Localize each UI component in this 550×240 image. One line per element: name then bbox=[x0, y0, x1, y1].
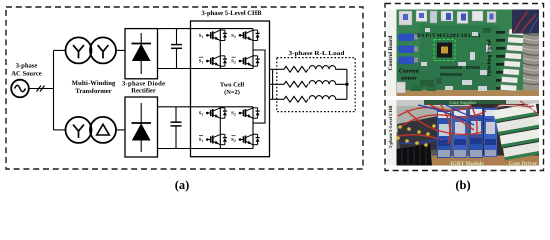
green pin rows mid board bbox=[440, 66, 480, 76]
phase wire stub A bbox=[270, 68, 285, 70]
svg-text:DSP(TMS320F28335): DSP(TMS320F28335) bbox=[417, 33, 480, 39]
capacitor C2 bbox=[171, 107, 182, 149]
wire bus to upper transformer bbox=[54, 49, 66, 51]
svg-text:S1: S1 bbox=[199, 33, 204, 39]
svg-text:Gate Supplier: Gate Supplier bbox=[449, 100, 476, 105]
svg-text:3-phase 5-Level CHB: 3-phase 5-Level CHB bbox=[388, 106, 394, 149]
CHB box bbox=[191, 21, 270, 157]
load branch A inductor bbox=[309, 66, 347, 70]
svg-text:S2: S2 bbox=[231, 33, 236, 39]
cell 2 left leg bbox=[219, 107, 221, 149]
transistor S2bar cell1 bbox=[239, 56, 260, 66]
connector pin rows dark stripes bbox=[496, 31, 505, 90]
svg-text:S2: S2 bbox=[231, 111, 236, 117]
cell 1 left leg bbox=[219, 29, 221, 69]
IGBT modules blue bbox=[437, 110, 451, 158]
svg-text:Current: Current bbox=[399, 69, 419, 75]
cascade wire cell1 to cell2 bbox=[253, 50, 265, 123]
cell 1 top rail bbox=[158, 28, 254, 30]
dark PCB slab with lugs bbox=[397, 116, 445, 156]
transistor S2 cell2 bbox=[239, 108, 260, 118]
photo background green PCB bbox=[387, 10, 539, 97]
svg-text:AC Source: AC Source bbox=[11, 71, 42, 78]
vertical bus bbox=[53, 50, 55, 129]
svg-text:S1: S1 bbox=[199, 137, 204, 143]
grey wire bundle right bbox=[523, 28, 539, 90]
light grey zone top left bbox=[397, 100, 452, 132]
svg-text:(a): (a) bbox=[175, 178, 190, 192]
AC source circle bbox=[11, 80, 29, 98]
3-phase slash marks bbox=[37, 86, 45, 92]
svg-text:Transformer: Transformer bbox=[75, 88, 111, 95]
wire source to bus bbox=[29, 88, 54, 90]
wire T2 to rectifier 2 bbox=[116, 129, 125, 131]
top photo: control board bbox=[387, 10, 539, 97]
svg-text:3-phase Diode: 3-phase Diode bbox=[122, 81, 165, 88]
transistor S2 cell1 bbox=[239, 30, 260, 40]
svg-text:3-phase 5-Level CHB: 3-phase 5-Level CHB bbox=[201, 10, 262, 17]
blue wires bbox=[400, 103, 493, 143]
svg-text:Multi-Winding: Multi-Winding bbox=[72, 80, 116, 87]
yellow lugs bbox=[396, 124, 436, 147]
overbars cell1 bbox=[199, 56, 236, 58]
capacitor C1 bbox=[171, 29, 182, 69]
transistor S1 cell1 bbox=[206, 30, 227, 40]
white relay components top row bbox=[399, 11, 412, 25]
svg-text:sensor: sensor bbox=[401, 76, 417, 82]
cell 2 right leg bbox=[252, 107, 254, 149]
tan table band bbox=[397, 156, 540, 166]
black heatsink bbox=[397, 144, 433, 166]
transformer T2 primary circle (Y) bbox=[66, 117, 92, 143]
wire T1 to rectifier 1 bbox=[116, 49, 125, 51]
red wires bbox=[398, 104, 486, 144]
dark zone behind drivers bbox=[470, 104, 539, 160]
cell 2 bottom rail bbox=[158, 148, 254, 150]
load branch C resistor bbox=[284, 96, 308, 102]
phase wire stub C bbox=[270, 98, 285, 100]
DSP dashed annotation bbox=[434, 40, 455, 61]
load branch A resistor bbox=[284, 66, 308, 72]
load branch C inductor bbox=[309, 96, 347, 100]
rectifier 1 box bbox=[125, 29, 158, 79]
svg-text:S1: S1 bbox=[199, 111, 204, 117]
small components bottom left bbox=[397, 82, 406, 93]
label strip 3-phase 5-Level CHB bbox=[387, 100, 397, 166]
gate driver stack bbox=[493, 103, 546, 161]
transistor S1bar cell1 bbox=[206, 56, 227, 66]
load branch B inductor bbox=[309, 81, 347, 85]
rectifier 2 box bbox=[125, 97, 158, 157]
blue capacitors bbox=[398, 34, 415, 42]
cell 1 bottom rail bbox=[158, 68, 254, 70]
scattered small components bbox=[421, 28, 491, 91]
svg-text:IGBT Module: IGBT Module bbox=[450, 161, 484, 167]
svg-text:Rectifier: Rectifier bbox=[131, 88, 156, 95]
transformer T1 primary circle (Y) bbox=[66, 37, 92, 63]
schematic text labels bbox=[11, 10, 470, 192]
transistor S2bar cell2 bbox=[239, 134, 260, 144]
svg-text:Control Board: Control Board bbox=[388, 35, 394, 71]
wires above gate drivers bbox=[495, 101, 539, 115]
load star wire bbox=[346, 69, 348, 99]
load dotted box bbox=[277, 58, 355, 112]
svg-text:Gate Driver: Gate Driver bbox=[509, 161, 538, 167]
svg-text:S2: S2 bbox=[231, 59, 236, 65]
rectifier 1 diode bbox=[132, 33, 152, 74]
transformer T1 secondary circle (Y) bbox=[90, 37, 116, 63]
svg-text:S2: S2 bbox=[231, 137, 236, 143]
phase wire stub B bbox=[270, 83, 285, 85]
svg-text:Two Cell: Two Cell bbox=[220, 81, 244, 88]
transistor S1 cell2 bbox=[206, 108, 227, 118]
svg-text:3-phase: 3-phase bbox=[16, 63, 38, 70]
dashed frame panel (b) bbox=[385, 4, 544, 171]
transformer T2 secondary circle (Delta) bbox=[90, 117, 116, 143]
svg-text:3-phase R-L Load: 3-phase R-L Load bbox=[289, 50, 346, 57]
DSP chip bbox=[437, 43, 452, 58]
transistor S1bar cell2 bbox=[206, 134, 227, 144]
bottom photo: CHB power stage bbox=[387, 100, 546, 168]
load branch B resistor bbox=[284, 81, 308, 87]
svg-text:(N=2): (N=2) bbox=[224, 89, 240, 96]
dark wire area top right bbox=[512, 10, 539, 34]
svg-text:S1: S1 bbox=[199, 59, 204, 65]
overbars cell2 bbox=[199, 135, 236, 137]
svg-text:Switching Signal: Switching Signal bbox=[487, 39, 493, 77]
load star node bbox=[345, 83, 348, 86]
label strip Control Board bbox=[387, 10, 397, 97]
phase bus vertical bbox=[272, 69, 274, 99]
cell 1 right leg bbox=[252, 29, 254, 69]
svg-text:(b): (b) bbox=[455, 178, 470, 192]
photo background dark bbox=[387, 100, 539, 166]
wire bus to lower transformer bbox=[54, 129, 66, 131]
white ribbon connectors bbox=[500, 29, 525, 92]
dashed frame panel (a) bbox=[6, 7, 363, 169]
rectifier 2 diode bbox=[132, 103, 152, 152]
cell 2 top rail bbox=[158, 106, 254, 108]
